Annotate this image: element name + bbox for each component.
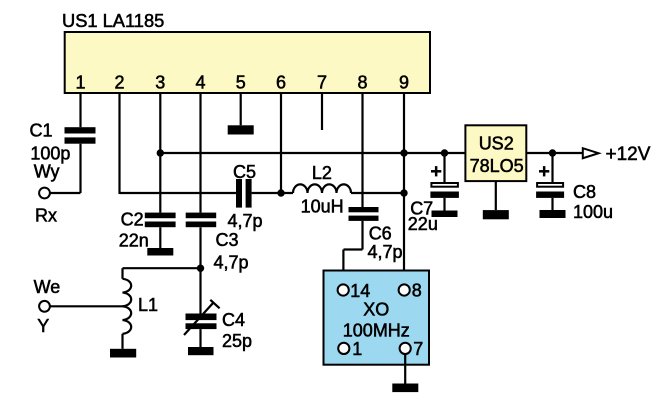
svg-text:Y: Y <box>37 316 49 336</box>
svg-text:7: 7 <box>317 73 327 93</box>
svg-text:We: We <box>34 277 61 297</box>
svg-text:9: 9 <box>399 73 409 93</box>
svg-text:Rx: Rx <box>35 205 57 225</box>
svg-text:22u: 22u <box>408 214 438 234</box>
svg-text:US1 LA1185: US1 LA1185 <box>62 10 164 31</box>
svg-text:100MHz: 100MHz <box>343 321 410 341</box>
svg-text:14: 14 <box>350 281 370 301</box>
svg-text:C2: C2 <box>121 209 144 229</box>
svg-text:8: 8 <box>412 281 422 301</box>
svg-text:4,7p: 4,7p <box>228 211 263 231</box>
svg-text:+12V: +12V <box>606 144 651 165</box>
svg-text:25p: 25p <box>222 331 252 351</box>
svg-text:C4: C4 <box>222 310 245 330</box>
svg-text:3: 3 <box>155 73 165 93</box>
svg-text:100u: 100u <box>573 202 613 222</box>
svg-text:C5: C5 <box>233 162 256 182</box>
svg-text:10uH: 10uH <box>301 197 344 217</box>
svg-text:2: 2 <box>114 73 124 93</box>
svg-text:4: 4 <box>195 73 205 93</box>
svg-text:7: 7 <box>413 339 423 359</box>
svg-text:XO: XO <box>363 300 389 320</box>
svg-text:6: 6 <box>276 73 286 93</box>
svg-text:L2: L2 <box>312 163 332 183</box>
svg-text:22n: 22n <box>119 231 149 251</box>
svg-text:4,7p: 4,7p <box>214 252 249 272</box>
svg-text:C6: C6 <box>369 224 392 244</box>
svg-text:4,7p: 4,7p <box>368 242 403 262</box>
svg-text:5: 5 <box>236 73 246 93</box>
svg-text:C1: C1 <box>30 120 53 140</box>
svg-text:L1: L1 <box>138 295 158 315</box>
svg-text:1: 1 <box>352 339 362 359</box>
svg-text:Wy: Wy <box>34 161 60 181</box>
svg-text:US2: US2 <box>479 134 514 154</box>
svg-text:8: 8 <box>357 73 367 93</box>
svg-text:C3: C3 <box>216 230 239 250</box>
svg-text:78LO5: 78LO5 <box>470 156 524 176</box>
svg-text:1: 1 <box>75 73 85 93</box>
svg-text:C8: C8 <box>573 182 596 202</box>
